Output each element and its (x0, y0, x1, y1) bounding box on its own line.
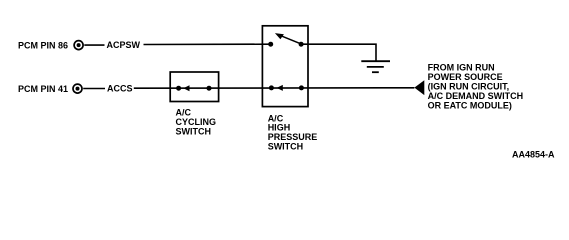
svg-text:SWITCH: SWITCH (268, 142, 304, 152)
svg-text:A/C DEMAND SWITCH: A/C DEMAND SWITCH (428, 91, 523, 101)
wire high pressure switch to ground (301, 44, 376, 60)
high pressure switch lower contact right (299, 85, 304, 90)
high pressure switch upper contact left (268, 42, 273, 47)
high pressure switch lower arrow (closed, pointing left) (277, 85, 283, 91)
svg-text:OR EATC MODULE): OR EATC MODULE) (428, 101, 512, 111)
power source arrowhead (414, 80, 424, 95)
wire pin86 to ACPSW label (84, 44, 104, 46)
svg-text:ACCS: ACCS (107, 84, 133, 94)
high pressure switch upper blade (open) (275, 33, 301, 44)
svg-text:PCM PIN 41: PCM PIN 41 (18, 84, 68, 94)
svg-text:ACPSW: ACPSW (107, 40, 141, 50)
wire ACPSW to high pressure switch (144, 43, 271, 45)
svg-text:PCM PIN 86: PCM PIN 86 (18, 41, 68, 51)
svg-text:HIGH: HIGH (268, 123, 291, 133)
connector pin 41 symbol (73, 84, 82, 93)
A/C cycling switch box (170, 72, 218, 102)
cycling switch contact left (176, 86, 181, 91)
A/C high pressure switch box (262, 26, 308, 107)
svg-text:POWER SOURCE: POWER SOURCE (428, 72, 503, 82)
connector pin 86 symbol (74, 41, 83, 50)
wire ACCS through cycling switch and high pressure switch to power source (134, 87, 415, 89)
high pressure switch lower contact left (269, 85, 274, 90)
label A/C HIGH PRESSURE SWITCH (268, 113, 318, 151)
cycling switch contact right (207, 86, 212, 91)
svg-text:(IGN RUN CIRCUIT,: (IGN RUN CIRCUIT, (428, 82, 510, 92)
svg-text:FROM IGN RUN: FROM IGN RUN (428, 63, 495, 73)
svg-text:PRESSURE: PRESSURE (268, 132, 318, 142)
svg-text:AA4854-A: AA4854-A (512, 149, 555, 159)
cycling switch arrow (closed, pointing left) (183, 85, 189, 91)
high pressure switch upper contact right (299, 42, 304, 47)
ground (361, 61, 390, 72)
wire pin41 to ACCS label (83, 88, 105, 90)
label A/C CYCLING SWITCH (176, 108, 217, 137)
svg-text:SWITCH: SWITCH (176, 126, 212, 136)
label FROM IGN RUN POWER SOURCE (428, 63, 523, 111)
